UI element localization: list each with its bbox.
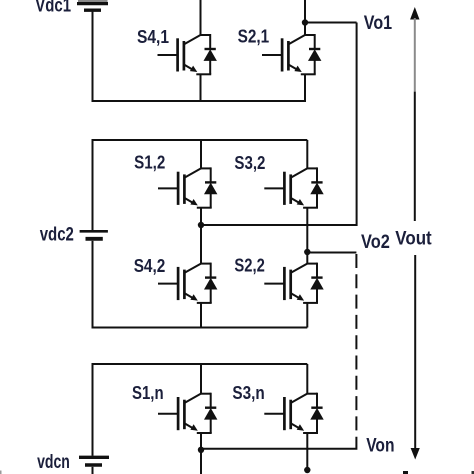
battery vdcn xyxy=(79,457,109,465)
transistor S3,n xyxy=(264,393,322,433)
node Vo2 xyxy=(304,249,310,255)
wire S3,2 collector xyxy=(306,140,308,168)
bottom edge mark xyxy=(403,471,408,474)
arrow Vout shaft lower black xyxy=(414,255,416,449)
wire cell1 right leg top xyxy=(304,0,306,35)
wire below vdcn xyxy=(92,467,94,474)
svg-text:Vo2: Vo2 xyxy=(361,232,390,253)
wire S2,1 emitter to bottom rail xyxy=(304,74,306,101)
corner mark bottom-right xyxy=(472,471,474,474)
svg-text:S1,2: S1,2 xyxy=(134,152,165,173)
wire S4,1 emitter to bottom rail xyxy=(200,74,202,101)
node celln right bottom xyxy=(304,467,310,473)
svg-text:Vout: Vout xyxy=(395,229,432,250)
svg-text:vdc2: vdc2 xyxy=(40,224,74,245)
transistor S1,2 xyxy=(158,167,216,207)
wire dashed bus Vo2 down xyxy=(355,254,357,437)
wire S1,n emitter down off image xyxy=(200,433,202,474)
svg-text:S4,1: S4,1 xyxy=(137,26,169,47)
wire S3,n emitter down xyxy=(306,433,308,470)
transistor S4,2 xyxy=(158,263,216,303)
svg-text:Vdc1: Vdc1 xyxy=(35,0,71,17)
arrow Vout down head xyxy=(411,448,420,460)
svg-text:S4,2: S4,2 xyxy=(134,255,166,276)
node celln left midpoint xyxy=(198,447,204,453)
wire Vo1 to right bus xyxy=(305,22,357,24)
battery Vdc1 xyxy=(77,1,108,10)
transistor S2,1 xyxy=(262,34,320,74)
svg-text:S1,n: S1,n xyxy=(132,382,164,403)
arrow Vout up head xyxy=(410,7,419,20)
wire S2,2 emitter to bottom rail xyxy=(306,303,308,328)
svg-text:vdcn: vdcn xyxy=(37,452,70,473)
node Vo1 xyxy=(302,19,308,25)
wire S1,2 emitter to midpoint node xyxy=(200,208,202,264)
svg-text:S2,2: S2,2 xyxy=(234,255,264,276)
wire cell2 top rail xyxy=(92,139,308,141)
svg-text:Vo1: Vo1 xyxy=(364,13,393,34)
wire cell2 bottom rail xyxy=(92,327,308,329)
wire cell2 left wire lower xyxy=(92,241,94,328)
wire Vo2 to right xyxy=(307,252,356,254)
transistor S1,n xyxy=(158,393,216,433)
wire S1,n collector xyxy=(200,364,202,394)
svg-text:S3,2: S3,2 xyxy=(234,152,265,173)
wire S4,2 emitter to bottom rail xyxy=(200,303,202,328)
svg-text:S2,1: S2,1 xyxy=(238,26,270,47)
transistor S4,1 xyxy=(158,34,216,74)
transistor S2,2 xyxy=(264,263,322,303)
transistor S3,2 xyxy=(264,167,322,207)
svg-text:S3,n: S3,n xyxy=(232,382,264,403)
arrow Vout shaft upper black xyxy=(414,92,416,221)
battery vdc2 xyxy=(80,231,108,239)
wire celln top rail xyxy=(92,363,308,365)
wire cell2 left wire upper xyxy=(92,140,94,230)
svg-text:Von: Von xyxy=(366,436,394,457)
wire cell1 bottom rail xyxy=(92,100,307,102)
wire cell1 left leg top xyxy=(200,0,202,35)
corner mark bottom-left xyxy=(0,471,2,474)
wire bus corner to celln midpoint xyxy=(201,437,356,449)
wire S3,2 emitter to S2,2 collector xyxy=(306,208,308,264)
wire Vdc1 to cell1 bottom rail xyxy=(92,12,94,102)
node cell2 left midpoint xyxy=(198,222,204,228)
wire S1,2 collector xyxy=(200,140,202,168)
wire S3,n collector xyxy=(306,364,308,394)
wire right bus down to cell2 midpoint xyxy=(201,23,357,226)
arrow Vout shaft gray xyxy=(414,18,416,92)
wire celln left wire xyxy=(92,364,94,456)
